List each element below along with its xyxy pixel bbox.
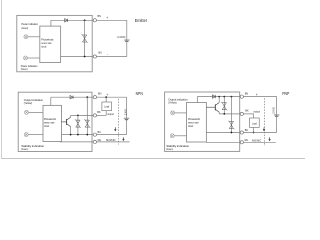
svg-text:+: + bbox=[106, 16, 108, 20]
svg-text:Load: Load bbox=[104, 104, 109, 108]
wire lamp PL4 to main circuit bbox=[28, 134, 43, 136]
zener ZD5 leg bbox=[230, 97, 232, 133]
lamp PL1 power indication bbox=[24, 35, 28, 39]
wire lamp PL2 to main circuit bbox=[28, 57, 40, 59]
node J14 bbox=[253, 132, 255, 134]
svg-text:output: output bbox=[253, 109, 260, 113]
wire BK to load pnp bbox=[243, 114, 253, 118]
arrow marker near WH npn bbox=[123, 137, 125, 140]
zener ZD5 across supply pnp bbox=[228, 121, 234, 130]
wire lamp PL5 to main circuit bbox=[175, 112, 187, 114]
wire load top riser bbox=[105, 97, 107, 102]
node J4 on output line bbox=[77, 115, 79, 117]
dashed cable boundary pnp bbox=[264, 98, 266, 146]
lamp PL4 stability indication bbox=[24, 133, 28, 137]
terminal BU bbox=[93, 55, 96, 58]
node J6 bbox=[77, 134, 79, 136]
node J1 on +V rail bbox=[84, 19, 86, 21]
NPN outer enclosure box bbox=[18, 92, 92, 151]
terminal BN npn bbox=[93, 96, 96, 99]
svg-text:BK: BK bbox=[245, 108, 248, 112]
wire 0V rail pnp bbox=[206, 132, 240, 134]
svg-text:output: output bbox=[107, 112, 114, 116]
wire 0V rail NPN bbox=[62, 134, 94, 136]
svg-text:12-24VDC: 12-24VDC bbox=[117, 35, 125, 39]
svg-text:BU: BU bbox=[99, 50, 102, 54]
svg-text:BN: BN bbox=[98, 14, 101, 18]
svg-text:12-24VDC: 12-24VDC bbox=[123, 109, 127, 116]
label: Output indication (Yellow) bbox=[24, 98, 44, 105]
svg-text:(Yellow): (Yellow) bbox=[24, 101, 32, 105]
label: Power indication (Green) top bbox=[21, 22, 38, 30]
battery BT3 12-24VDC bbox=[274, 115, 280, 116]
wire NO/NC select from U3 bbox=[206, 141, 240, 143]
wire output line pnp bbox=[219, 113, 240, 115]
svg-text:(Green): (Green) bbox=[21, 67, 28, 71]
svg-text:BU: BU bbox=[245, 128, 248, 132]
wire 0V rail bbox=[61, 56, 94, 58]
zener ZD1 surge absorber bbox=[82, 34, 88, 43]
label: Power indication (Green) bottom bbox=[21, 64, 38, 71]
lamp PL5 output indication pnp bbox=[171, 111, 175, 115]
zener ZD4 across transistor bbox=[221, 102, 227, 111]
wire BN to supply bbox=[96, 20, 126, 56]
terminal BN pnp bbox=[240, 95, 243, 98]
svg-text:-: - bbox=[107, 52, 108, 56]
load RL1 bbox=[102, 102, 112, 111]
diode D1 reverse-polarity protection bbox=[65, 19, 68, 22]
battery BT1 12-24VDC bbox=[124, 40, 130, 41]
dashed cable boundary npn bbox=[118, 99, 120, 145]
wire zener ZD2 leg bbox=[77, 115, 79, 134]
main circuit block U2 bbox=[43, 105, 62, 141]
wire load bottom riser bbox=[105, 111, 107, 116]
svg-text:circuit: circuit bbox=[41, 44, 46, 48]
terminal BK pnp bbox=[240, 112, 243, 115]
wire zener ZD3 leg bbox=[86, 97, 88, 134]
node J9 bbox=[218, 96, 220, 98]
zener ZD3 across supply bbox=[84, 119, 90, 128]
wire supply to BU pnp bbox=[243, 132, 276, 134]
arrow marker near WH pnp bbox=[269, 137, 271, 141]
wire load to 0V pnp bbox=[253, 127, 255, 132]
svg-text:(Yellow): (Yellow) bbox=[168, 101, 176, 105]
lamp PL6 stability indication pnp bbox=[170, 134, 174, 138]
node J3 bbox=[86, 96, 88, 98]
load RL2 bbox=[250, 118, 260, 127]
svg-text:BK: BK bbox=[97, 110, 100, 114]
wire TVS leg bbox=[84, 20, 86, 56]
node J12 bbox=[223, 113, 225, 115]
label: Output indication (Yellow) pnp bbox=[168, 97, 188, 104]
wire NO/NC select from U2 bbox=[60, 141, 93, 143]
wire WH extension pnp bbox=[243, 141, 275, 143]
wire Q1 emitter to 0V rail bbox=[70, 127, 72, 135]
svg-text:circuit: circuit bbox=[188, 124, 193, 128]
node J8 load tap bbox=[105, 96, 107, 98]
transistor Q2 PNP output bbox=[206, 103, 219, 113]
svg-text:circuit: circuit bbox=[44, 124, 49, 128]
svg-text:PNP: PNP bbox=[282, 91, 289, 96]
diode D2 bbox=[70, 96, 73, 99]
arrow marker near BU pnp bbox=[263, 127, 265, 130]
wire +V rail bbox=[51, 19, 93, 21]
wire +V rail NPN bbox=[51, 96, 94, 98]
zener ZD2 across output bbox=[75, 119, 81, 128]
main circuit block U1 bbox=[40, 26, 61, 62]
emitter outer enclosure box bbox=[17, 15, 92, 71]
wire Q1 collector to output bbox=[70, 115, 72, 117]
wire supply to BU npn bbox=[97, 134, 127, 136]
node J13 bbox=[231, 132, 233, 134]
wire BK to load bbox=[97, 114, 107, 116]
wire Q2 emitter to +V bbox=[218, 97, 220, 103]
label: Stability indication (Green) pnp bbox=[166, 144, 189, 151]
svg-text:+: + bbox=[256, 93, 258, 97]
node J2 on 0V rail bbox=[84, 56, 86, 58]
svg-text:BN: BN bbox=[245, 92, 248, 96]
wire riser U3 to +V rail pnp bbox=[196, 97, 198, 103]
lamp PL3 output indication bbox=[25, 110, 29, 114]
wire riser from U1 to +V rail bbox=[50, 20, 52, 26]
battery BT2 12-24VDC bbox=[124, 118, 130, 119]
diode D3 bbox=[212, 95, 215, 98]
svg-text:WH: WH bbox=[244, 138, 248, 142]
main circuit block U3 bbox=[187, 103, 207, 143]
svg-text:NO/NC: NO/NC bbox=[106, 138, 116, 142]
wire output line BK bbox=[71, 114, 94, 116]
node J7 bbox=[86, 134, 88, 136]
terminal BU npn bbox=[93, 133, 96, 136]
svg-text:12-24VDC: 12-24VDC bbox=[272, 107, 276, 114]
svg-text:BU: BU bbox=[98, 130, 101, 134]
terminal BK npn bbox=[93, 114, 96, 117]
transistor Q1 NPN output bbox=[62, 117, 71, 126]
svg-text:(Green): (Green) bbox=[21, 147, 28, 151]
wire lamp PL3 to main circuit bbox=[29, 111, 44, 113]
wire Q2 collector to output bbox=[218, 112, 220, 114]
svg-text:(Green): (Green) bbox=[166, 147, 173, 151]
svg-text:BN: BN bbox=[98, 92, 101, 96]
svg-text:Load: Load bbox=[252, 121, 257, 125]
arrow marker near BU npn bbox=[114, 127, 116, 131]
node J11 bbox=[231, 96, 233, 98]
wire +V rail pnp bbox=[197, 96, 240, 98]
svg-text:(Green): (Green) bbox=[21, 26, 28, 30]
svg-text:NO/NC: NO/NC bbox=[252, 139, 262, 143]
svg-text:Emitter: Emitter bbox=[135, 18, 148, 24]
wire lamp PL6 to main circuit bbox=[174, 135, 186, 137]
page left border bbox=[0, 0, 2, 159]
terminal WH npn bbox=[93, 140, 96, 143]
svg-text:NPN: NPN bbox=[136, 91, 143, 96]
svg-text:+: + bbox=[106, 93, 108, 97]
label: Stability indication (Green) bbox=[21, 144, 44, 151]
wire BN to supply pnp bbox=[243, 97, 276, 133]
wire BN to supply npn bbox=[97, 97, 127, 134]
PNP outer enclosure box bbox=[165, 92, 240, 151]
terminal BN bbox=[93, 19, 96, 22]
terminal BU pnp bbox=[240, 131, 243, 134]
wire supply to BU bbox=[96, 56, 126, 58]
node J10 bbox=[223, 96, 225, 98]
page bottom rule bbox=[1, 158, 305, 160]
wire WH extension npn bbox=[97, 141, 130, 143]
terminal WH pnp bbox=[240, 141, 243, 144]
node J5 bbox=[70, 134, 72, 136]
wire lamp PL1 to main circuit bbox=[28, 36, 40, 38]
wire riser U2 to +V rail bbox=[50, 97, 52, 105]
zener ZD4 leg bbox=[223, 97, 225, 114]
lamp PL2 power indication green bbox=[24, 56, 28, 60]
